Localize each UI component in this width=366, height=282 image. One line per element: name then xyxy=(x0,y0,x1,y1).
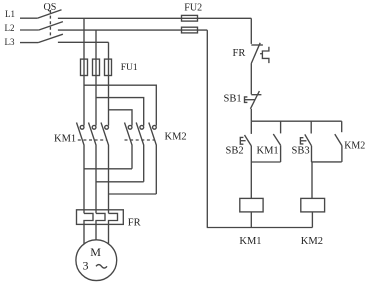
wire join KM2 out1 to phase A xyxy=(84,168,132,170)
wire L1 to FU2 xyxy=(58,17,251,19)
contactor KM2 aux contact (NO) xyxy=(335,121,342,162)
wire FR to SB1 xyxy=(250,64,252,95)
contactor KM2 main contact 3 xyxy=(149,123,157,195)
svg-text:FR: FR xyxy=(233,48,246,59)
wire join SB2/KM1aux xyxy=(251,161,280,163)
svg-text:L1: L1 xyxy=(5,9,15,19)
coil KM1 xyxy=(240,198,263,212)
svg-text:3: 3 xyxy=(83,259,89,273)
svg-text:SB2: SB2 xyxy=(226,146,244,157)
thermal relay FR heater element 3 xyxy=(109,213,118,244)
svg-text:SB1: SB1 xyxy=(224,94,242,105)
switch QS pole 3 blade xyxy=(38,34,63,42)
wire join SB3/KM2aux xyxy=(311,161,341,163)
svg-text:KM2: KM2 xyxy=(344,140,365,151)
switch QS pole 2 blade xyxy=(39,22,63,30)
wire KM2 coil to bottom rail xyxy=(311,212,313,228)
wire crossover phase A to KM2 right xyxy=(84,85,156,125)
svg-text:KM1: KM1 xyxy=(54,134,76,145)
wire control top rail xyxy=(251,120,341,122)
svg-text:FU1: FU1 xyxy=(121,63,138,73)
svg-text:KM1: KM1 xyxy=(239,236,261,247)
wire L1 lead-in xyxy=(20,17,37,19)
contactor KM1 main contact 3 xyxy=(101,123,109,214)
wire control phase A drop xyxy=(250,18,252,44)
svg-text:M: M xyxy=(90,245,101,259)
thermal relay FR heater element 2 xyxy=(96,213,105,239)
svg-text:SB3: SB3 xyxy=(292,146,310,157)
svg-text:L3: L3 xyxy=(5,37,15,47)
contactor KM1 linkage (dashed) xyxy=(78,139,107,141)
wire L2 to FU2 xyxy=(58,29,207,31)
svg-text:FU2: FU2 xyxy=(184,2,202,13)
switch QS pole 1 blade xyxy=(37,10,61,19)
wire phase A vertical xyxy=(83,18,85,125)
thermal relay FR heater element 1 xyxy=(84,213,93,244)
wire control phase B drop xyxy=(206,30,208,227)
wire to KM2 coil xyxy=(311,162,313,199)
thermal relay FR NC contact xyxy=(251,43,269,64)
wire crossover phase C to KM2 left xyxy=(109,110,133,126)
wire crossover phase B to KM2 middle xyxy=(96,98,144,126)
svg-text:L2: L2 xyxy=(5,23,15,33)
switch QS linkage (dashed) xyxy=(49,10,51,39)
wire SB1 to rail xyxy=(250,109,252,121)
coil KM2 xyxy=(301,198,325,212)
wire join KM2 out3 to phase C xyxy=(109,193,157,195)
wire L2 lead-in xyxy=(20,29,39,31)
fuse FU1 phase B xyxy=(93,59,100,75)
fuse FU1 phase C xyxy=(105,59,112,75)
wire KM1 coil to bottom rail xyxy=(250,212,252,228)
wire L3 xyxy=(58,41,109,43)
motor M xyxy=(76,240,117,281)
wire to KM1 coil xyxy=(250,162,252,198)
svg-text:FR: FR xyxy=(128,218,141,229)
wire L3 lead-in xyxy=(20,42,38,44)
svg-text:KM1: KM1 xyxy=(257,146,279,157)
contactor KM1 aux contact (NO) xyxy=(273,121,280,162)
start button SB3 (NO) xyxy=(300,121,311,146)
wire join KM2 out2 to phase B xyxy=(96,181,144,183)
contactor KM2 linkage (dashed) xyxy=(125,139,155,141)
contactor KM1 main contact 2 xyxy=(89,123,97,214)
wire SB3 down xyxy=(311,146,313,162)
wire phase C vertical xyxy=(108,42,110,125)
start button SB2 (NO) xyxy=(240,121,251,146)
contactor KM1 main contact 1 xyxy=(77,123,85,214)
fuse FU1 phase A xyxy=(81,59,88,75)
wire phase B vertical xyxy=(95,30,97,126)
svg-text:KM2: KM2 xyxy=(165,132,187,143)
wire SB2 down xyxy=(250,146,252,162)
contactor KM2 main contact 1 xyxy=(125,123,133,169)
stop button SB1 (NC) xyxy=(245,91,262,109)
contactor KM2 main contact 2 xyxy=(136,123,144,182)
wire control bottom rail xyxy=(207,227,313,229)
thermal relay FR heater box xyxy=(77,210,124,225)
fuse FU2 lower xyxy=(182,27,198,33)
svg-text:KM2: KM2 xyxy=(301,236,323,247)
fuse FU2 upper xyxy=(182,15,198,21)
